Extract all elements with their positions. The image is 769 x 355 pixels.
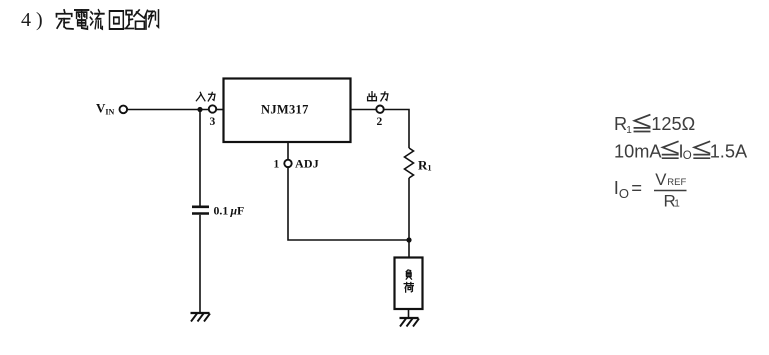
svg-text:1: 1 — [626, 125, 632, 136]
svg-text:1: 1 — [274, 159, 280, 171]
svg-text:1: 1 — [674, 198, 680, 209]
ground left — [191, 313, 211, 322]
wire capacitor to ground — [199, 215, 201, 313]
fraction bar — [654, 190, 687, 192]
pin 3 circle — [209, 105, 216, 112]
svg-text:1.5A: 1.5A — [710, 142, 748, 162]
resistor R1 zigzag — [405, 148, 414, 178]
wire pin2 to resistor R1 — [384, 110, 409, 149]
svg-text:0.1μF: 0.1μF — [214, 204, 245, 218]
wire resistor to node B — [408, 178, 410, 240]
terminal VIN circle — [120, 106, 128, 114]
wire ADJ pin down and right to node B — [288, 167, 409, 240]
load box — [395, 258, 423, 310]
wire pin3 to IC — [217, 109, 223, 111]
svg-text:O: O — [619, 186, 629, 201]
svg-text:4: 4 — [21, 9, 31, 31]
leq sign 2 — [663, 142, 678, 159]
svg-text:REF: REF — [667, 177, 686, 188]
label nyuryoku 入力 — [196, 92, 215, 101]
title text 4) — [21, 9, 43, 31]
ground right — [400, 318, 420, 327]
svg-text:NJM317: NJM317 — [261, 103, 309, 117]
svg-text:R1: R1 — [418, 158, 432, 173]
svg-text:125Ω: 125Ω — [651, 114, 695, 134]
pin 2 circle — [376, 106, 383, 113]
svg-text:ADJ: ADJ — [295, 157, 319, 171]
label fuka 負荷 (load), vertical — [404, 270, 413, 292]
pin 1 ADJ circle — [284, 160, 291, 167]
IC U1 NJM317 body — [224, 79, 351, 143]
wire node B to load — [408, 240, 410, 257]
label VIN — [96, 101, 115, 117]
svg-text:V: V — [655, 170, 667, 189]
leq sign 1 — [634, 115, 709, 158]
wire IC bottom to ADJ pin — [287, 143, 289, 160]
node B dot — [406, 237, 411, 242]
title kanji 定電流回路例 — [57, 10, 159, 29]
svg-text:VIN: VIN — [96, 101, 115, 117]
svg-text:O: O — [683, 150, 692, 162]
svg-text:): ) — [36, 9, 43, 31]
svg-text:2: 2 — [377, 116, 383, 128]
svg-text:10mA: 10mA — [614, 142, 662, 162]
svg-text:=: = — [631, 177, 642, 198]
wire VIN to input node — [128, 109, 210, 111]
svg-text:R: R — [614, 114, 627, 134]
input node dot — [197, 107, 202, 112]
wire input node down to capacitor — [199, 110, 201, 206]
wire load to ground — [408, 309, 410, 318]
label shutsuryoku 出力 — [368, 92, 388, 101]
svg-text:3: 3 — [210, 116, 216, 128]
wire IC to pin2 — [351, 109, 376, 111]
leq sign 3 — [694, 142, 709, 159]
capacitor C plates — [192, 206, 209, 209]
